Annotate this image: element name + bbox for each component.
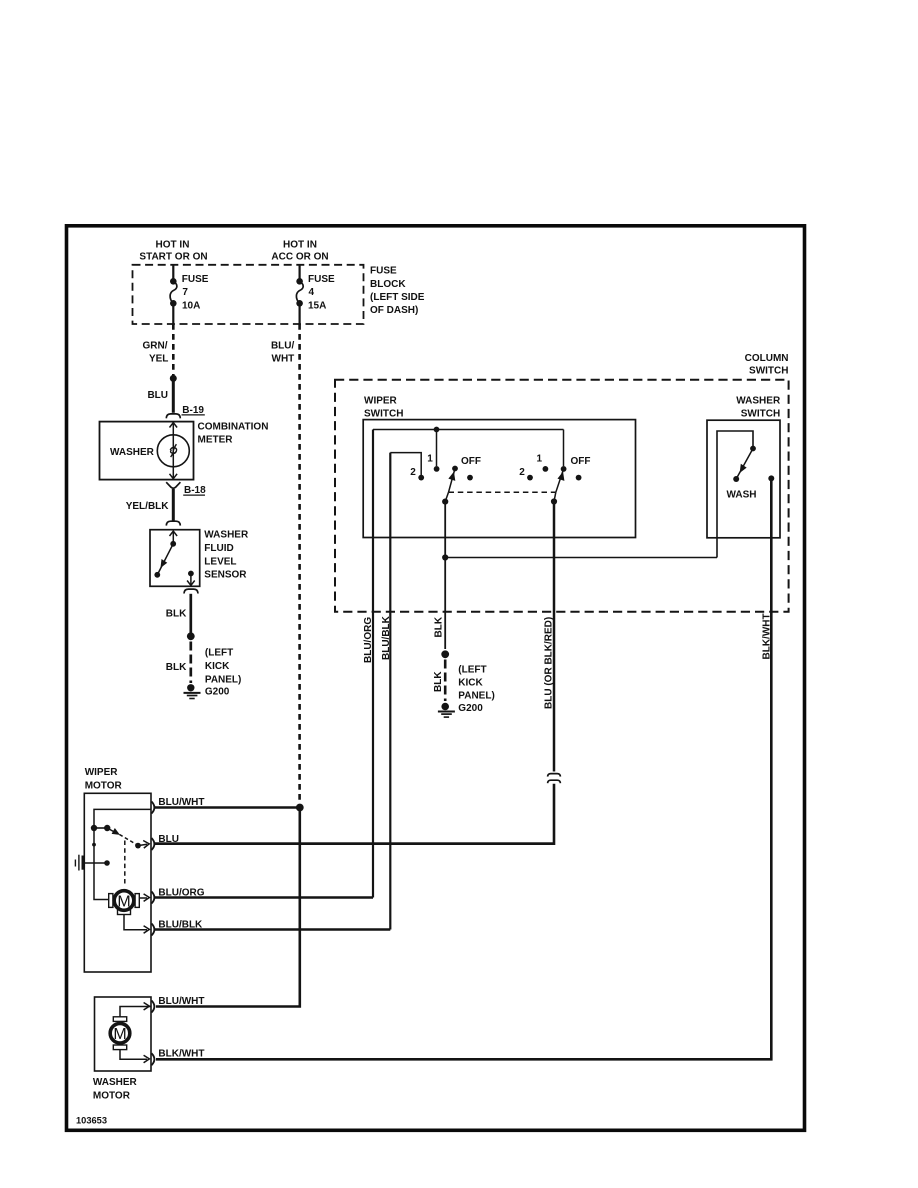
svg-text:WASHER: WASHER <box>110 447 155 458</box>
node washer switch output <box>768 475 774 481</box>
svg-text:103653: 103653 <box>76 1116 107 1126</box>
wire BLU/ORG drop (A) <box>372 430 374 898</box>
node ground stub <box>104 860 110 866</box>
svg-text:KICK: KICK <box>205 661 230 672</box>
park contact to BLU terminal <box>135 843 141 849</box>
park switch blade <box>107 828 113 832</box>
chassis ground (wiper motor) <box>82 856 85 870</box>
svg-text:OFF: OFF <box>571 456 591 467</box>
svg-text:OF DASH): OF DASH) <box>370 305 418 316</box>
sw1 blade <box>452 466 458 472</box>
wire BLU/BLK drop (B) <box>389 453 391 930</box>
washer switch box <box>707 420 780 538</box>
svg-text:WASH: WASH <box>727 489 757 500</box>
svg-text:BLU/BLK: BLU/BLK <box>381 615 392 660</box>
node link junction <box>442 554 448 560</box>
wire BLU/WHT row to wiper motor <box>155 806 300 809</box>
svg-text:WASHER: WASHER <box>736 395 781 406</box>
svg-text:WIPER: WIPER <box>364 395 398 406</box>
wire BLU/ORG row <box>155 896 373 899</box>
svg-text:START OR ON: START OR ON <box>139 252 207 263</box>
ground G200 (sensor) <box>187 684 194 691</box>
wire YEL/BLK <box>172 489 175 521</box>
wiper motor M <box>114 891 134 911</box>
svg-text:ACC OR ON: ACC OR ON <box>271 252 328 263</box>
svg-text:BLK: BLK <box>166 609 187 620</box>
svg-text:FUSE: FUSE <box>182 274 209 285</box>
svg-text:(LEFT: (LEFT <box>205 648 233 659</box>
mechanical link dashed to motor <box>124 841 126 887</box>
svg-text:BLK/WHT: BLK/WHT <box>762 613 773 659</box>
wire BLU/WHT solid down to washer motor <box>156 808 300 1007</box>
svg-text:COLUMN: COLUMN <box>745 353 789 364</box>
svg-text:BLU/BLK: BLU/BLK <box>158 920 203 931</box>
svg-text:KICK: KICK <box>458 677 483 688</box>
node sw2 contact 2 <box>527 475 533 481</box>
svg-text:SWITCH: SWITCH <box>741 408 780 419</box>
connector B-18 cup <box>166 482 180 488</box>
svg-text:BLU/: BLU/ <box>271 340 295 351</box>
svg-text:MOTOR: MOTOR <box>85 780 123 791</box>
combination meter box <box>100 422 194 480</box>
meter internal wire with arrows <box>172 424 174 478</box>
node BLU/WHT junction <box>296 804 304 812</box>
wiper motor box <box>84 793 151 972</box>
motor to BLU/BLK terminal <box>124 915 147 930</box>
border frame <box>67 226 805 1131</box>
svg-text:BLU/WHT: BLU/WHT <box>158 797 204 808</box>
washer switch feed wire <box>717 431 753 558</box>
wire BLU/WHT dashed from fuse 4 <box>298 324 301 804</box>
wire BLK dashed to ground (column) <box>444 660 447 702</box>
wire BLK dashed to ground <box>189 642 192 684</box>
node splice BLK <box>187 632 195 640</box>
svg-text:HOT IN: HOT IN <box>283 239 317 250</box>
node sw1 pole <box>442 499 448 505</box>
svg-text:M: M <box>117 893 130 910</box>
svg-text:PANEL): PANEL) <box>205 674 241 685</box>
svg-text:15A: 15A <box>308 301 326 312</box>
svg-text:BLK: BLK <box>166 662 187 673</box>
svg-text:GRN/: GRN/ <box>143 340 168 351</box>
wire sw1 pole to washer switch (BLK link) <box>444 502 446 649</box>
fuse F4 15A <box>296 265 303 324</box>
wire BLU/BLK row <box>155 928 390 931</box>
svg-text:BLU/ORG: BLU/ORG <box>158 887 204 898</box>
mechanical link dashed <box>449 491 556 493</box>
park switch contact on feed <box>91 825 97 831</box>
wire sw1 contact2 to BLU/BLK drop <box>390 453 421 478</box>
node sw2 contact 1 <box>543 466 549 472</box>
svg-text:1: 1 <box>537 453 543 464</box>
node sw2 contact OFF <box>576 475 582 481</box>
wire BLK/WHT drop (E) <box>156 478 771 1059</box>
ground G200 (column) <box>441 703 449 711</box>
node sw1 contact OFF <box>467 475 473 481</box>
svg-text:BLK/WHT: BLK/WHT <box>158 1049 204 1060</box>
svg-text:10A: 10A <box>182 301 200 312</box>
svg-text:BLU/WHT: BLU/WHT <box>158 996 204 1007</box>
svg-text:WIPER: WIPER <box>85 767 119 778</box>
svg-text:G200: G200 <box>205 686 230 697</box>
svg-text:WASHER: WASHER <box>204 530 249 541</box>
washer motor to BLK/WHT <box>120 1050 147 1060</box>
wire BLU to combination meter <box>172 378 175 412</box>
connector cup below sensor <box>184 589 198 593</box>
wire BLK from sensor <box>189 594 192 633</box>
svg-text:FLUID: FLUID <box>204 543 233 554</box>
fuse block dashed box <box>133 265 364 324</box>
wire link horizontal <box>445 557 717 559</box>
wire BLU row <box>155 842 554 845</box>
sensor switch <box>172 531 174 544</box>
svg-text:4: 4 <box>309 287 315 298</box>
svg-text:BLU: BLU <box>158 834 179 845</box>
washer lamp (indicator) <box>157 435 189 467</box>
svg-text:WASHER: WASHER <box>93 1077 138 1088</box>
wire D lower <box>155 784 554 844</box>
node sw2 pole <box>551 498 557 504</box>
sw2 blade tip <box>561 466 567 472</box>
washer motor internal feed <box>120 1007 151 1017</box>
node sw1 contact 2 <box>418 475 424 481</box>
svg-text:(LEFT: (LEFT <box>458 664 486 675</box>
svg-text:FUSE: FUSE <box>370 265 397 276</box>
svg-text:COMBINATION: COMBINATION <box>198 421 269 432</box>
svg-text:SWITCH: SWITCH <box>749 365 788 376</box>
inline connector on wire D <box>548 774 561 777</box>
svg-text:MOTOR: MOTOR <box>93 1091 131 1102</box>
node sw1 contact 1 <box>434 466 440 472</box>
wire BLU (OR BLK/RED) drop (D) upper <box>553 502 556 772</box>
svg-text:1: 1 <box>427 453 433 464</box>
svg-text:METER: METER <box>198 434 234 445</box>
svg-text:(LEFT SIDE: (LEFT SIDE <box>370 292 425 303</box>
wiper switch 1 feed stub <box>436 430 438 467</box>
connector B-19 cup <box>166 414 180 418</box>
svg-text:YEL/BLK: YEL/BLK <box>126 501 170 512</box>
wiper switch box <box>363 420 635 538</box>
svg-text:BLOCK: BLOCK <box>370 279 406 290</box>
wire GRN/YEL dashed from fuse 7 <box>172 324 175 376</box>
node splice BLK column <box>441 650 449 658</box>
washer motor box <box>95 997 152 1071</box>
node rail junction <box>434 427 440 433</box>
svg-text:FUSE: FUSE <box>308 274 335 285</box>
washer fluid level sensor box <box>150 530 200 587</box>
washer motor M <box>110 1023 130 1043</box>
svg-text:BLK: BLK <box>434 616 445 637</box>
svg-text:2: 2 <box>410 467 416 478</box>
svg-text:SENSOR: SENSOR <box>204 570 247 581</box>
connector cup above sensor <box>166 521 180 525</box>
svg-text:BLU/ORG: BLU/ORG <box>363 617 374 663</box>
node on feed wire <box>92 843 96 847</box>
motor to BLU/ORG terminal <box>140 897 148 899</box>
svg-text:BLU: BLU <box>147 390 168 401</box>
svg-text:PANEL): PANEL) <box>458 690 494 701</box>
wiper switch feed rail <box>373 429 564 431</box>
svg-text:2: 2 <box>519 467 525 478</box>
wiper motor internal feed <box>94 809 151 899</box>
svg-text:LEVEL: LEVEL <box>204 556 236 567</box>
terminal cups washer motor <box>152 1001 155 1013</box>
park switch pivot <box>104 825 110 831</box>
svg-text:G200: G200 <box>458 703 483 714</box>
park blade dashed travel <box>120 835 137 845</box>
sensor output contact <box>188 571 194 577</box>
svg-text:SWITCH: SWITCH <box>364 408 403 419</box>
svg-text:OFF: OFF <box>461 456 481 467</box>
washer switch blade <box>750 446 756 452</box>
node splice on GRN/YEL <box>170 375 177 382</box>
svg-text:HOT IN: HOT IN <box>156 239 190 250</box>
svg-text:BLU (OR BLK/RED): BLU (OR BLK/RED) <box>543 617 554 709</box>
svg-text:WHT: WHT <box>272 353 295 364</box>
column switch dashed box <box>335 380 789 612</box>
svg-text:BLK: BLK <box>433 671 444 692</box>
terminal cups wiper motor <box>152 802 155 814</box>
sw2 blade <box>556 469 564 492</box>
wiper switch 2 feed stub <box>563 430 565 467</box>
fuse F7 10A <box>170 265 177 324</box>
svg-text:7: 7 <box>182 287 188 298</box>
svg-text:M: M <box>113 1026 126 1043</box>
svg-text:YEL: YEL <box>149 353 168 364</box>
